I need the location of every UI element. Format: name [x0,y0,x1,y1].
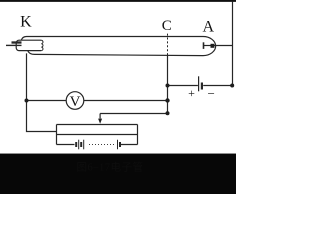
wire C lead down [167,56,169,114]
svg-text:−: − [208,86,215,101]
cathode heater zigzag [41,40,43,50]
battery B2 cell plates [75,142,77,147]
node junction K-V [25,99,29,103]
vacuum tube envelope [27,37,216,56]
frame top border [0,0,236,2]
grid C dashed line [167,34,169,56]
svg-text:V: V [70,94,81,110]
wire battery row [168,85,233,87]
svg-text:A: A [203,18,215,35]
battery B1 long plate [198,76,200,91]
wire voltmeter right [84,100,168,102]
potentiometer R1 box [57,125,138,145]
battery row bottom right segment [121,144,138,146]
filament lead lower [6,44,22,46]
wiper stem [99,114,101,119]
anode plate [203,42,205,49]
anode plate lead [204,45,213,47]
battery B1 short plate [201,83,203,90]
battery row bottom left segment [57,144,75,146]
frame right border wire [232,2,234,86]
svg-text:图6–17电子管: 图6–17电子管 [77,161,144,174]
node junction battery right [230,84,234,88]
node junction C-battery [166,84,170,88]
battery B2 continuation dots [89,144,114,146]
svg-text:+: + [188,86,195,100]
wire anode to right border [212,45,233,47]
tube left neck top [21,37,26,41]
node junction C-wiper [166,111,170,115]
wiper arrowhead [98,119,102,124]
caption black bar [0,154,236,194]
node junction C-V [165,98,169,102]
cathode K can [16,40,41,50]
svg-text:K: K [20,13,32,30]
wire K lead down and to potentiometer [27,53,57,131]
wire voltmeter left [27,100,67,102]
tube left neck bottom [28,51,35,55]
svg-text:C: C [162,18,172,34]
filament lead upper thick [12,41,22,43]
wire wiper to C lead [100,113,167,115]
node anode A dot [211,44,215,48]
voltmeter U1 circle [66,92,84,110]
